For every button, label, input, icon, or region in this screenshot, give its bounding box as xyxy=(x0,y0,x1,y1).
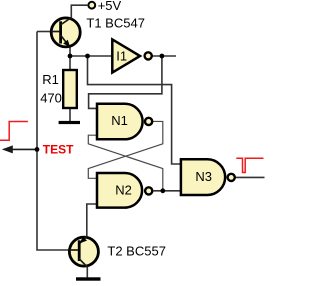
svg-text:R1: R1 xyxy=(42,72,59,87)
red output waveform (negative pulse) xyxy=(236,158,263,172)
svg-text:N1: N1 xyxy=(111,113,128,128)
svg-text:T2 BC557: T2 BC557 xyxy=(107,244,166,259)
junction node I1 output xyxy=(160,54,165,59)
junction node N2 output xyxy=(160,188,165,193)
svg-text:T1 BC547: T1 BC547 xyxy=(86,15,145,30)
wire N1 lower input crossover to N2 output xyxy=(88,135,163,191)
wire node A to N3 upper input xyxy=(88,56,181,164)
NAND gate N3 xyxy=(181,159,235,195)
svg-text:N2: N2 xyxy=(115,183,132,198)
wire TEST arrow line xyxy=(9,148,37,150)
wire T1 base stub xyxy=(37,31,51,33)
svg-text:470: 470 xyxy=(40,90,62,105)
NAND gate N2 xyxy=(97,173,152,208)
junction node at T1 emitter / R1 xyxy=(68,54,73,59)
ground (below R1) xyxy=(59,121,80,124)
wire node to R1 top xyxy=(69,56,71,70)
wire R1 bottom to ground xyxy=(69,108,71,121)
wire N2 lower input down to T2 emitter xyxy=(87,204,97,236)
wire node row to I1 input xyxy=(70,55,113,57)
inverter I1 xyxy=(112,39,151,72)
junction node A (I1 input) xyxy=(85,54,90,59)
transistor T1 BC547 xyxy=(51,18,80,48)
wire left rail T1 base to T2 base xyxy=(37,32,69,251)
NAND gate N1 xyxy=(97,104,152,140)
wire N2 output to N3 lower input xyxy=(154,190,181,192)
junction node TEST xyxy=(35,147,40,152)
wire N3 output xyxy=(236,176,265,178)
wire +5V drop to T1 collector xyxy=(71,5,87,17)
+5V terminal xyxy=(88,2,95,9)
transistor T2 BC557 xyxy=(69,236,98,267)
wire I1 output stub xyxy=(153,55,176,57)
svg-text:TEST: TEST xyxy=(43,142,74,156)
svg-text:N3: N3 xyxy=(195,169,212,184)
svg-text:+5V: +5V xyxy=(98,0,122,13)
wire T1 emitter down to node xyxy=(69,47,71,57)
wire I1 output to N1 upper input xyxy=(89,56,162,108)
wire T2 collector to ground xyxy=(86,267,88,278)
wire N1 output crossover to N2 upper input xyxy=(88,121,163,178)
resistor R1 xyxy=(63,70,77,108)
ground (below T2) xyxy=(76,277,101,280)
arrowhead TEST xyxy=(2,145,13,153)
svg-text:I1: I1 xyxy=(116,49,127,64)
red input waveform (rising edge) xyxy=(0,122,28,141)
